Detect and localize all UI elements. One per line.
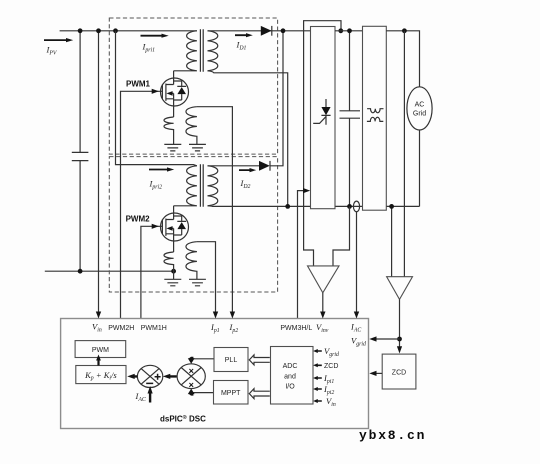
node dot Vgrid sense top	[402, 28, 407, 33]
wire D2 to top rail riser	[270, 31, 283, 166]
wire Ip2 sense from L1b to dsPIC	[197, 107, 233, 314]
wire grid bottom	[419, 130, 421, 206]
svg-text:and: and	[284, 374, 296, 381]
dashed box flyback cell 2	[109, 157, 277, 292]
wire Ip1 sense from L2b to dsPIC	[197, 242, 216, 314]
SCR symbol	[313, 99, 330, 125]
transformer T2 secondary winding	[208, 166, 218, 206]
wire top PV+ rail	[60, 30, 311, 32]
svg-text:ZCD: ZCD	[392, 370, 406, 377]
wire Vgrid sense right	[403, 31, 405, 277]
transformer T2 primary winding	[174, 166, 197, 206]
ZCD box	[382, 354, 416, 389]
wire Vinv sense left	[304, 31, 314, 266]
open arrow ADC to PLL	[249, 355, 269, 365]
inductor L1a source sense winding	[164, 117, 174, 144]
svg-text:PWM1H: PWM1H	[141, 325, 167, 332]
node dot rail-cap	[78, 28, 83, 33]
arrowhead Vin into dsPIC	[96, 312, 101, 319]
wire IAC sense	[356, 212, 358, 314]
arrow multiplier to summer	[163, 374, 177, 379]
svg-text:PWM: PWM	[92, 347, 109, 354]
wire Vgrid to dsPIC	[376, 338, 400, 340]
unfolding bridge box U3	[311, 27, 336, 209]
svg-text:PWM1: PWM1	[126, 80, 151, 89]
arrow IAC feedback up	[148, 386, 153, 403]
inductor L2a source sense winding	[164, 252, 174, 279]
arrow Ipi2 into ADC	[313, 387, 322, 391]
wire Vinv sense right	[333, 206, 350, 266]
wire T2 secondary top to D2	[208, 165, 260, 167]
arrow IPV	[44, 38, 73, 42]
op-amp A2 Vgrid sense	[387, 277, 413, 300]
wire PWM3 gate drive	[298, 191, 304, 319]
wire mid rail filter to grid	[386, 205, 419, 207]
svg-text:ADC: ADC	[283, 363, 298, 370]
diode D1	[261, 26, 272, 36]
multiplier circle	[177, 364, 205, 389]
diode D2	[259, 161, 270, 171]
wire A2 output	[399, 299, 401, 348]
node dot pvrail-cell2gnd	[171, 269, 176, 274]
wire top rail filter to grid	[386, 31, 419, 87]
ground G1b	[189, 144, 206, 151]
inductor L2b auxiliary winding	[186, 242, 197, 280]
op-amp A1 Vinv sense	[308, 266, 340, 293]
arrowhead into ZCD	[397, 346, 402, 353]
transformer T1 core	[200, 29, 203, 71]
svg-text:PWM3H/L: PWM3H/L	[280, 325, 312, 332]
arrowhead PWM3 into bridge	[303, 188, 310, 193]
arrow Ipri2	[149, 167, 174, 171]
svg-text:×: ×	[189, 380, 194, 390]
wire top rail bridge-filter	[335, 30, 363, 32]
MPPT block	[214, 381, 249, 405]
ground G2b	[189, 279, 206, 286]
arrowhead IAC into dsPIC	[354, 312, 359, 319]
arrow ID2	[239, 168, 256, 172]
svg-text:ZCD: ZCD	[324, 363, 338, 370]
arrow Ipi1 into ADC	[313, 376, 322, 380]
svg-text:I/O: I/O	[285, 384, 295, 391]
open arrow ADC to MPPT	[249, 389, 269, 399]
arrowhead Vinv into dsPIC	[320, 312, 325, 319]
arrowhead Vgrid	[369, 336, 376, 341]
PWM block	[75, 341, 126, 358]
arrowhead gate Q2	[152, 224, 159, 229]
capacitor C1	[72, 31, 89, 271]
wire T2 secondary bottom to mid rail	[208, 205, 311, 208]
svg-text:PWM2: PWM2	[126, 215, 151, 224]
wire ZCD to dsPIC	[376, 372, 383, 374]
wire mid rail between bridge and filter	[335, 205, 363, 207]
svg-text:PLL: PLL	[225, 357, 238, 364]
transistor Q2	[161, 206, 189, 252]
current sensor CT	[353, 201, 359, 212]
wire MPPT to multiplier	[192, 392, 213, 394]
arrow Vin into ADC	[313, 399, 322, 403]
wire gate PWM1H	[121, 91, 163, 318]
wire A1 output	[322, 293, 324, 314]
node dot rail-vin	[96, 28, 101, 33]
arrow ID1	[235, 33, 253, 37]
summer circle	[137, 365, 162, 387]
svg-text:MPPT: MPPT	[221, 390, 241, 397]
transformer T1 secondary winding	[208, 31, 218, 71]
wire hop over bridge	[304, 21, 341, 31]
node dot Vgrid sense bottom	[389, 204, 394, 209]
wire Vgrid sense left	[391, 206, 393, 276]
node dot D-junction top rail	[281, 28, 286, 33]
svg-text:PWM2H: PWM2H	[108, 325, 134, 332]
EMI filter box	[363, 26, 387, 210]
arrow ZCD into ADC	[313, 363, 322, 367]
wire T1 secondary bottom return	[208, 71, 288, 207]
arrow Vgrid into ADC	[313, 349, 322, 353]
arrowhead Ip2 into dsPIC	[230, 312, 235, 319]
PLL block	[214, 348, 248, 372]
arrow summer to Kp	[127, 374, 137, 379]
arrow Kp to PWM	[96, 355, 101, 366]
arrowhead Ip1 into dsPIC	[213, 312, 218, 319]
node dot C2 bottom	[347, 204, 352, 209]
wire Vin sense line	[98, 31, 100, 314]
arrowhead ZCD out	[369, 371, 376, 376]
node dot Vgrid branch	[397, 337, 402, 342]
dsPIC DSC box	[61, 319, 369, 429]
capacitor C2	[340, 31, 361, 207]
wire gate PWM2H	[141, 226, 163, 318]
transformer T1 primary winding	[174, 31, 197, 71]
transistor Q1	[161, 71, 189, 117]
ground G2a	[164, 279, 181, 286]
svg-text:Grid: Grid	[413, 111, 426, 118]
svg-text:AC: AC	[415, 102, 425, 109]
dashed box flyback cell 1	[109, 18, 277, 154]
ADC and I/O block	[271, 347, 314, 405]
svg-text:ybx8.cn: ybx8.cn	[359, 428, 426, 443]
ground G1a	[164, 144, 181, 151]
inductor L1b auxiliary winding	[186, 107, 197, 145]
wire PV- bottom rail	[45, 270, 174, 272]
node dot cap-bottom	[78, 269, 83, 274]
arrow Ipri1	[141, 34, 169, 38]
transformer T2 core	[200, 164, 203, 206]
filter symbol	[367, 109, 383, 113]
node dot rail-cell2feed	[113, 28, 118, 33]
node dot C2 top	[347, 28, 352, 33]
node dot hop right	[338, 28, 343, 33]
wire PLL to multiplier	[192, 358, 214, 360]
wire cell2 feed from rail	[116, 31, 197, 166]
node dot secondary return junction	[285, 204, 290, 209]
arrowhead gate Q1	[152, 89, 159, 94]
Kp+Ki/s block	[76, 366, 126, 384]
AC grid source	[407, 87, 432, 130]
svg-text:×: ×	[189, 366, 194, 376]
